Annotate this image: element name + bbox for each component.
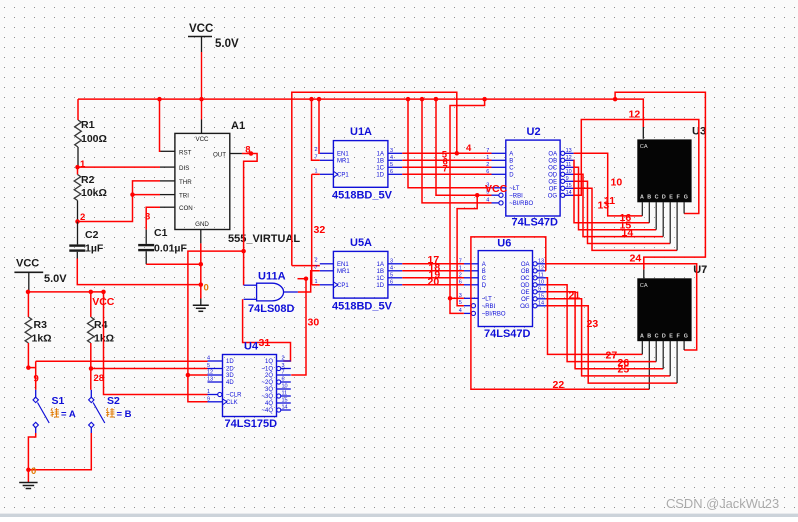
- pin stub: [662, 202, 664, 237]
- wire segment: [574, 160, 650, 223]
- svg-text:1: 1: [207, 389, 210, 395]
- svg-text:U6: U6: [497, 237, 511, 249]
- svg-text:74LS175D: 74LS175D: [225, 418, 278, 430]
- svg-text:S2: S2: [107, 395, 120, 407]
- svg-text:VCC: VCC: [189, 23, 213, 35]
- svg-text:R4: R4: [94, 319, 108, 331]
- svg-text:1C: 1C: [376, 276, 384, 282]
- ground (bottom left): [19, 483, 37, 489]
- wire U2 OD to U3 segment D: [574, 174, 664, 236]
- wire U2 OB to U3 segment B: [574, 160, 650, 223]
- pin stub: [277, 360, 291, 362]
- wire segment: [292, 265, 320, 267]
- svg-text:2: 2: [459, 272, 462, 278]
- junction VCC left: [26, 290, 31, 295]
- wire segment: [291, 279, 306, 375]
- svg-text:C: C: [655, 195, 659, 201]
- svg-text:7: 7: [459, 258, 462, 264]
- junction U6 LT: [448, 296, 453, 301]
- wire segment: [546, 278, 642, 355]
- svg-text:C: C: [509, 166, 514, 172]
- wire net 9 (R3/S1 to U4 1D): [28, 343, 207, 390]
- svg-text:1D: 1D: [376, 173, 384, 179]
- pin stub: [281, 368, 291, 370]
- pin stub: [537, 270, 546, 272]
- wire segment: [28, 291, 104, 293]
- junction bus x=311.5: [309, 97, 314, 102]
- svg-text:R2: R2: [81, 174, 95, 186]
- svg-text:B: B: [647, 195, 651, 201]
- svg-text:0: 0: [204, 283, 209, 294]
- wire net 28 (R4/S2 to U4 2D): [91, 343, 208, 390]
- wire U6 OB to U7 segment B (left wrap, net 22): [471, 237, 649, 389]
- junction CLR feed: [101, 290, 106, 295]
- svg-text:9: 9: [207, 396, 210, 402]
- pin stub: [208, 368, 223, 370]
- ic U4 left pins: [207, 356, 242, 407]
- svg-text:VCC: VCC: [485, 183, 508, 195]
- VCC bar: [188, 36, 212, 38]
- pin stub: [388, 284, 402, 286]
- svg-text:D: D: [662, 334, 666, 340]
- svg-text:12: 12: [538, 265, 544, 271]
- svg-text:30: 30: [308, 317, 320, 329]
- svg-text:25: 25: [618, 364, 630, 376]
- junction net 9: [26, 365, 31, 370]
- stub: [160, 206, 175, 208]
- pin stub: [388, 173, 402, 175]
- wire net 12 bus to U3 CA pin: [615, 99, 643, 139]
- wire segment: [402, 152, 491, 154]
- svg-text:VCC: VCC: [16, 258, 39, 270]
- svg-text:3: 3: [282, 363, 285, 369]
- svg-text:C: C: [655, 334, 659, 340]
- bus segment: [78, 98, 615, 100]
- pin stub: [208, 374, 223, 376]
- svg-text:2: 2: [486, 162, 489, 168]
- wire U2 OA to U3 segment A: [574, 153, 643, 216]
- pin stub: [320, 159, 334, 161]
- node 0 junction: [26, 468, 31, 473]
- svg-text:B: B: [509, 159, 513, 165]
- display U3 seven-segment body: [637, 139, 691, 202]
- wire segment: [27, 343, 29, 368]
- wire C1 bottom to GND node: [146, 251, 201, 264]
- svg-text:U2: U2: [527, 126, 541, 138]
- svg-text:C: C: [482, 276, 487, 282]
- svg-text:0.01µF: 0.01µF: [154, 243, 187, 255]
- svg-text:5: 5: [207, 363, 210, 369]
- svg-text:EN1: EN1: [337, 152, 349, 158]
- svg-text:13: 13: [598, 200, 610, 212]
- wire segment: [402, 166, 491, 168]
- wire segment: [574, 188, 678, 250]
- ic U2 left pins: [486, 148, 533, 207]
- net labels U7 segment nets: [569, 290, 630, 376]
- wire segment: [146, 207, 160, 229]
- svg-text:VCC: VCC: [195, 136, 209, 143]
- wire segment: [312, 173, 320, 175]
- wire segment: [77, 259, 201, 285]
- wire segment: [471, 237, 649, 389]
- svg-text:A: A: [482, 262, 486, 268]
- ic U5A 4518BD_5V body: [333, 251, 388, 298]
- wire U2 OE to U3 segment E: [574, 181, 671, 243]
- wire U6 OA to U7 segment G (right side): [546, 264, 697, 350]
- wire segment: [242, 154, 257, 286]
- pin stub: [208, 394, 218, 396]
- svg-text:1A: 1A: [377, 152, 384, 158]
- pin stub: [320, 270, 334, 272]
- svg-text:= B: = B: [117, 409, 132, 420]
- switch S1: [33, 390, 49, 433]
- svg-text:R3: R3: [34, 319, 48, 331]
- wire node1 to R2: [77, 167, 79, 174]
- wire segment: [200, 299, 202, 306]
- svg-text:GND: GND: [195, 221, 209, 228]
- svg-text:12: 12: [207, 370, 213, 376]
- svg-text:1A: 1A: [377, 262, 384, 268]
- svg-text:U1A: U1A: [350, 126, 372, 138]
- svg-text:OD: OD: [521, 283, 531, 289]
- display U3 segment letters: [640, 195, 688, 201]
- wire segment: [574, 153, 643, 216]
- wire bus to U6 ~LT and ~BI/RBO: [450, 99, 485, 313]
- wire VCC to R3: [27, 292, 29, 317]
- svg-text:4518BD_5V: 4518BD_5V: [332, 300, 393, 312]
- svg-text:100Ω: 100Ω: [81, 133, 107, 145]
- svg-text:74LS47D: 74LS47D: [484, 328, 531, 340]
- svg-text:1D: 1D: [376, 283, 384, 289]
- wire U1A outputs to U2 inputs: [402, 153, 491, 174]
- svg-text:G: G: [684, 334, 688, 340]
- pin stub: [537, 298, 546, 300]
- wire U2 OG to U3 segment G (wrap rectangle): [574, 120, 699, 214]
- node 2 junction: [75, 219, 80, 224]
- pin stub: [492, 152, 506, 154]
- wire segment: [402, 173, 491, 175]
- stub: [160, 166, 175, 168]
- svg-text:7: 7: [282, 370, 285, 376]
- svg-text:10: 10: [611, 177, 623, 189]
- svg-text:14: 14: [538, 300, 544, 306]
- pin stub: [464, 312, 471, 314]
- wire segment: [574, 120, 699, 214]
- svg-text:1: 1: [315, 168, 318, 174]
- wire net 24 bus to U7 CA pin: [615, 92, 705, 278]
- gate U11A 74LS08D body: [257, 283, 284, 301]
- pin stub: [388, 166, 402, 168]
- wire segment: [28, 433, 91, 470]
- svg-text:U5A: U5A: [350, 237, 372, 249]
- svg-text:14: 14: [566, 190, 572, 196]
- pin stub: [641, 202, 643, 216]
- svg-text:11: 11: [282, 391, 288, 397]
- wire U6 OC to U7 segment A: [546, 278, 642, 355]
- pin stub: [648, 202, 650, 223]
- svg-text:6: 6: [390, 169, 393, 175]
- svg-text:3: 3: [145, 212, 150, 223]
- pin stub: [277, 374, 291, 376]
- pin stub: [320, 152, 334, 154]
- svg-text:10: 10: [282, 384, 288, 390]
- svg-text:5: 5: [390, 162, 393, 168]
- svg-text:TRI: TRI: [179, 193, 189, 200]
- svg-text:CP1: CP1: [337, 173, 349, 179]
- wire segment: [436, 99, 492, 195]
- svg-text:9: 9: [34, 374, 39, 385]
- svg-text:22: 22: [553, 379, 565, 391]
- ic A1 pin names: [179, 136, 226, 228]
- svg-text:11: 11: [538, 272, 544, 278]
- svg-text:7: 7: [486, 148, 489, 154]
- wire 555 GND pin down to ground: [200, 230, 202, 306]
- wire segment: [615, 92, 705, 269]
- ic U1A pins: [315, 147, 403, 179]
- pin stub: [281, 381, 291, 383]
- pin stub: [464, 305, 471, 307]
- svg-text:~RBI: ~RBI: [482, 304, 496, 310]
- svg-text:5: 5: [390, 272, 393, 278]
- junction net 8: [249, 151, 254, 156]
- pin stub: [464, 277, 478, 279]
- junction bus x=319: [317, 97, 322, 102]
- svg-text:OE: OE: [521, 290, 530, 296]
- svg-text:D: D: [482, 283, 487, 289]
- pin stub: [537, 263, 546, 265]
- display U7 seven-segment body: [637, 278, 691, 341]
- svg-text:2: 2: [315, 258, 318, 264]
- pin stub: [565, 187, 574, 189]
- svg-text:3Q: 3Q: [265, 387, 273, 393]
- pin stub: [320, 173, 334, 175]
- pin stub: [281, 409, 291, 411]
- input stub b: [244, 298, 257, 300]
- wire segment: [201, 52, 203, 120]
- svg-text:~LT: ~LT: [482, 297, 492, 303]
- wire segment: [422, 99, 492, 203]
- wire segment: [78, 166, 161, 168]
- svg-text:RST: RST: [179, 149, 192, 156]
- resistor R4: [88, 317, 95, 343]
- pin stub: [662, 341, 664, 369]
- pin stub: [537, 277, 546, 279]
- ground (center): [193, 305, 209, 311]
- junction bus x=615.1: [613, 97, 618, 102]
- wire segment: [292, 92, 457, 265]
- capacitor C1: [138, 244, 154, 251]
- wire segment: [312, 99, 320, 160]
- svg-text:1: 1: [459, 265, 462, 271]
- svg-text:OF: OF: [549, 187, 558, 193]
- junction net 28: [89, 366, 94, 371]
- svg-text:10kΩ: 10kΩ: [81, 187, 107, 199]
- svg-text:OG: OG: [548, 194, 558, 200]
- svg-text:15: 15: [538, 293, 544, 299]
- svg-text:CON: CON: [179, 205, 193, 212]
- svg-text:6: 6: [390, 279, 393, 285]
- svg-text:1B: 1B: [377, 269, 384, 275]
- svg-text:3: 3: [390, 148, 393, 154]
- wire segment: [28, 272, 30, 292]
- pin stub OUT: [230, 153, 242, 155]
- junction GND/C1: [199, 262, 204, 267]
- resistor R1: [75, 120, 82, 147]
- ic U6 left pins: [459, 258, 506, 317]
- wire C2 bottom to ground line: [77, 252, 201, 285]
- bar: [14, 271, 43, 273]
- svg-text:4D: 4D: [226, 380, 234, 386]
- pin stub: [208, 381, 223, 383]
- junction net 8 branch: [241, 249, 246, 254]
- svg-text:~3Q: ~3Q: [261, 394, 273, 400]
- svg-text:E: E: [669, 334, 673, 340]
- svg-text:C1: C1: [154, 227, 168, 239]
- svg-text:OF: OF: [521, 297, 530, 303]
- wire to U4 3D: [188, 374, 208, 376]
- svg-text:CA: CA: [640, 283, 648, 289]
- wire segment: [311, 174, 313, 284]
- svg-text:1B: 1B: [377, 159, 384, 165]
- svg-text:OA: OA: [521, 262, 530, 268]
- wire segment: [574, 167, 657, 229]
- svg-text:7: 7: [443, 164, 448, 175]
- svg-text:CSDN @JackWu23: CSDN @JackWu23: [666, 496, 779, 511]
- pin stub: [565, 166, 574, 168]
- svg-text:EN1: EN1: [337, 262, 349, 268]
- junction 3D branch: [186, 373, 191, 378]
- wire segment: [28, 367, 35, 369]
- pin stub: [464, 284, 478, 286]
- svg-text:CP1: CP1: [337, 283, 349, 289]
- wire segment: [312, 284, 320, 286]
- svg-text:21: 21: [569, 290, 581, 302]
- svg-text:4518BD_5V: 4518BD_5V: [332, 190, 393, 202]
- svg-text:3D: 3D: [226, 373, 234, 379]
- pin stub: [565, 159, 574, 161]
- svg-text:B: B: [647, 334, 651, 340]
- pin stub: [492, 202, 499, 204]
- svg-text:E: E: [669, 195, 673, 201]
- wire segment: [201, 120, 203, 134]
- wire segment: [574, 181, 671, 243]
- svg-text:C2: C2: [85, 229, 99, 241]
- pin stub: [388, 263, 402, 265]
- pin stub: [464, 270, 478, 272]
- capacitor C2: [69, 244, 85, 251]
- svg-text:~RBI: ~RBI: [509, 193, 523, 199]
- svg-text:~4Q: ~4Q: [261, 408, 273, 414]
- svg-text:1C: 1C: [376, 166, 384, 172]
- resistor R2: [74, 175, 81, 201]
- svg-text:4: 4: [466, 143, 472, 154]
- wire segment: [28, 433, 35, 483]
- svg-text:OB: OB: [548, 159, 557, 165]
- wire segment: [200, 230, 202, 244]
- pin stub: [655, 202, 657, 230]
- wire segment: [546, 285, 656, 362]
- junction TRI branch: [130, 192, 135, 197]
- pin stub: [537, 284, 546, 286]
- svg-text:0: 0: [31, 466, 36, 477]
- wire segment: [76, 252, 78, 259]
- wire net 32 U1A CP1 to U5A CP1: [312, 174, 320, 284]
- ic U1A 4518BD_5V body: [333, 141, 388, 188]
- wire CON to C1 (net 3): [146, 207, 160, 244]
- wire R1 to node 1: [77, 147, 79, 167]
- svg-text:13: 13: [566, 148, 572, 154]
- svg-text:6: 6: [459, 279, 462, 285]
- svg-text:A: A: [640, 334, 644, 340]
- svg-text:74LS08D: 74LS08D: [248, 303, 295, 315]
- pin stub: [281, 395, 291, 397]
- switch S2: [89, 390, 105, 433]
- junction net 30: [304, 276, 309, 281]
- svg-text:B: B: [482, 269, 486, 275]
- wire segment: [457, 195, 477, 306]
- wire VCC to bus and 555 VCC pin: [201, 37, 203, 134]
- svg-text:6: 6: [282, 377, 285, 383]
- wire bus to R1: [77, 99, 79, 120]
- wire segment: [146, 263, 201, 265]
- pin stub: [320, 284, 334, 286]
- wire segment: [91, 368, 208, 370]
- wire net 30 vertical to U4 2Q: [291, 279, 306, 375]
- pin stub: [565, 152, 574, 154]
- svg-text:5.0V: 5.0V: [44, 273, 67, 285]
- svg-text:4Q: 4Q: [265, 401, 273, 407]
- wire segment: [402, 159, 491, 161]
- svg-text:~2Q: ~2Q: [261, 380, 273, 386]
- svg-text:14: 14: [622, 227, 634, 239]
- svg-text:31: 31: [259, 337, 271, 349]
- svg-text:OUT: OUT: [213, 152, 226, 159]
- display U7 segment letters: [640, 334, 688, 340]
- svg-text:CLK: CLK: [226, 400, 238, 406]
- pin stub: [492, 187, 506, 189]
- wire segment: [402, 270, 464, 272]
- power VCC (left) symbol: [14, 258, 67, 286]
- wire segment: [243, 299, 291, 361]
- wire segment: [546, 292, 663, 369]
- svg-text:1µF: 1µF: [85, 243, 104, 255]
- pin stub: [492, 173, 506, 175]
- junction bus x=484.6: [482, 97, 487, 102]
- svg-text:9: 9: [538, 286, 541, 292]
- wire segment: [90, 343, 92, 390]
- wire segment: [402, 277, 464, 279]
- pin stub: [655, 341, 657, 362]
- resistor R3: [25, 317, 32, 343]
- svg-text:OB: OB: [521, 269, 530, 275]
- wire segment: [450, 297, 464, 299]
- svg-text:9: 9: [566, 176, 569, 182]
- wire VCC to R4: [90, 292, 92, 317]
- svg-text:10: 10: [566, 169, 572, 175]
- wire segment: [145, 251, 147, 264]
- svg-text:G: G: [684, 195, 688, 201]
- wire segment: [574, 174, 664, 236]
- svg-text:2D: 2D: [226, 367, 234, 373]
- ic U2 74LS47D body: [506, 140, 560, 216]
- svg-text:15: 15: [282, 398, 288, 404]
- pin stub: [492, 159, 506, 161]
- wire segment: [36, 360, 208, 362]
- output stub: [284, 291, 298, 293]
- svg-text:R1: R1: [81, 119, 95, 131]
- svg-text:1: 1: [80, 159, 86, 170]
- pin stub: [537, 291, 546, 293]
